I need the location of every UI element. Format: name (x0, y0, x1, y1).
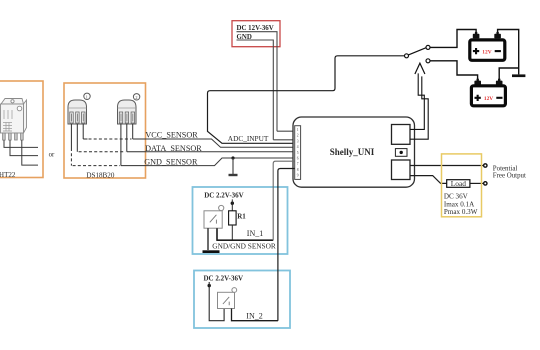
DHT22 vent grid (3, 110, 12, 131)
svg-text:IN_2: IN_2 (246, 311, 262, 320)
wire battery2 - to ground (499, 68, 519, 81)
dashed wire GND row (73, 165, 120, 167)
sensor DHT22 (1, 99, 27, 141)
wire throw2 to battery2 + (430, 61, 478, 81)
svg-text:4: 4 (297, 145, 299, 149)
wire sensor1 GND pin dashed elbow (70, 124, 72, 148)
svg-text:Load: Load (451, 179, 466, 188)
battery BT1 (470, 32, 505, 60)
orange frame DHT22 box (0, 81, 43, 178)
junction on GND_SENSOR (231, 156, 234, 159)
wire sensor2 VDD pin (133, 124, 146, 139)
svg-text:DS18B20: DS18B20 (86, 171, 114, 179)
switch SW1 circle (219, 205, 224, 210)
svg-text:VCC_SENSOR: VCC_SENSOR (145, 130, 198, 139)
connector pin marks (297, 128, 299, 178)
wire DC+ supply (237, 32, 295, 132)
wire SW1 to IN1 bus (216, 228, 273, 240)
svg-text:3: 3 (297, 139, 299, 143)
svg-text:DC 2.2V-36V: DC 2.2V-36V (204, 274, 244, 282)
svg-text:Imax 0.1A: Imax 0.1A (444, 200, 475, 208)
svg-text:DC 12V-36V: DC 12V-36V (237, 25, 274, 32)
wire DHT22 pin2 (10, 140, 38, 156)
sensor DS18B20 #1 (68, 93, 90, 124)
button dot (400, 151, 403, 154)
terminal out2 (484, 182, 487, 185)
wire SW2 to IN2 (232, 309, 278, 321)
svg-text:2: 2 (297, 134, 299, 138)
resistor R1 (229, 211, 237, 225)
wire GND supply (237, 40, 295, 140)
button box (395, 149, 407, 157)
relay actuation arrow line B (410, 76, 428, 139)
wire DC+ to R1 (231, 199, 233, 210)
frame yellow load box (442, 154, 482, 217)
wire sensor1 DQ pin (76, 124, 78, 152)
switch SW1 lever (210, 215, 217, 224)
shelly module body U1 (293, 117, 415, 187)
wire ADC_INPUT / switch common (208, 56, 405, 144)
frame blue box IN1 (193, 187, 288, 254)
svg-text:5: 5 (297, 151, 299, 155)
svg-text:or: or (49, 151, 55, 158)
svg-text:7: 7 (297, 162, 299, 166)
svg-text:1: 1 (297, 128, 299, 132)
wire R1 to bus (231, 225, 233, 240)
svg-text:DHT22: DHT22 (0, 171, 16, 179)
wire relay2 out1 (410, 165, 484, 167)
sensor DS18B20 #2 (118, 94, 140, 124)
wire IN2 riser (278, 169, 295, 321)
battery BT2 (471, 79, 505, 106)
svg-text:Shelly_UNI: Shelly_UNI (330, 147, 375, 157)
wire sensor2 DQ pin (127, 124, 146, 152)
wire sensor1 VDD pin (83, 124, 87, 139)
relay actuation arrow line A (410, 73, 424, 129)
terminal dot DC+ (1) (231, 202, 234, 205)
orange frame DS18B20 box (64, 83, 146, 178)
switch SW common terminal (405, 54, 409, 58)
svg-text:6: 6 (297, 157, 299, 161)
dashed wire DATA row (79, 151, 126, 153)
relay contact box K2 (392, 160, 411, 180)
arrowhead (415, 63, 425, 74)
wire load to out2 (470, 182, 484, 184)
wire relay2 out2 via load (410, 176, 447, 184)
dashed wire VCC row (89, 138, 132, 140)
svg-text:Potential: Potential (493, 165, 518, 172)
ground bar IN1 (203, 250, 220, 253)
wire dot to SW2 (209, 282, 224, 321)
svg-text:8: 8 (297, 168, 299, 172)
ground symbol GND_SENSOR (232, 158, 234, 174)
svg-text:DC 2.2V-36V: DC 2.2V-36V (204, 191, 244, 199)
wire DHT22 pin1 (4, 140, 38, 147)
wire VCC_SENSOR (146, 139, 295, 147)
svg-text:Pmax 0.3W: Pmax 0.3W (444, 208, 478, 216)
frame DC supply red box (232, 21, 280, 47)
wire DHT22 pin4 (22, 140, 38, 165)
wire battery1 - to ground (498, 30, 519, 75)
svg-text:9: 9 (297, 174, 299, 178)
wire throw1 to battery1 + (430, 30, 476, 48)
switch throw 2 (426, 59, 430, 63)
svg-text:12V: 12V (482, 49, 491, 55)
switch box SW1 (204, 211, 222, 228)
connector strip (295, 126, 301, 180)
terminal dot DC+ (2) (208, 284, 211, 287)
switch lever (408, 48, 426, 55)
svg-text:R1: R1 (237, 213, 246, 221)
frame blue box IN2 (194, 271, 290, 329)
svg-text:ADC_INPUT: ADC_INPUT (228, 134, 269, 143)
wire SW1 to ground (207, 228, 209, 250)
wire sensor2 GND pin (121, 124, 146, 166)
terminal out1 (484, 164, 487, 167)
switch box SW2 (218, 292, 235, 308)
svg-text:Free Output: Free Output (493, 172, 526, 179)
ground bar batteries (512, 74, 525, 77)
switch throw 1 (426, 45, 430, 49)
resistor Load (447, 180, 470, 188)
svg-text:GND/GND SENSOR: GND/GND SENSOR (212, 241, 276, 250)
svg-text:12V: 12V (484, 96, 493, 102)
svg-text:IN_1: IN_1 (247, 229, 263, 238)
wire GND_SENSOR (146, 158, 295, 166)
switch SW2 circle (232, 288, 237, 293)
switch SW2 lever (223, 297, 229, 305)
wire DATA_SENSOR (146, 151, 295, 153)
wire bus riser to GND pin (273, 161, 295, 240)
relay contact box K1 (392, 125, 411, 145)
